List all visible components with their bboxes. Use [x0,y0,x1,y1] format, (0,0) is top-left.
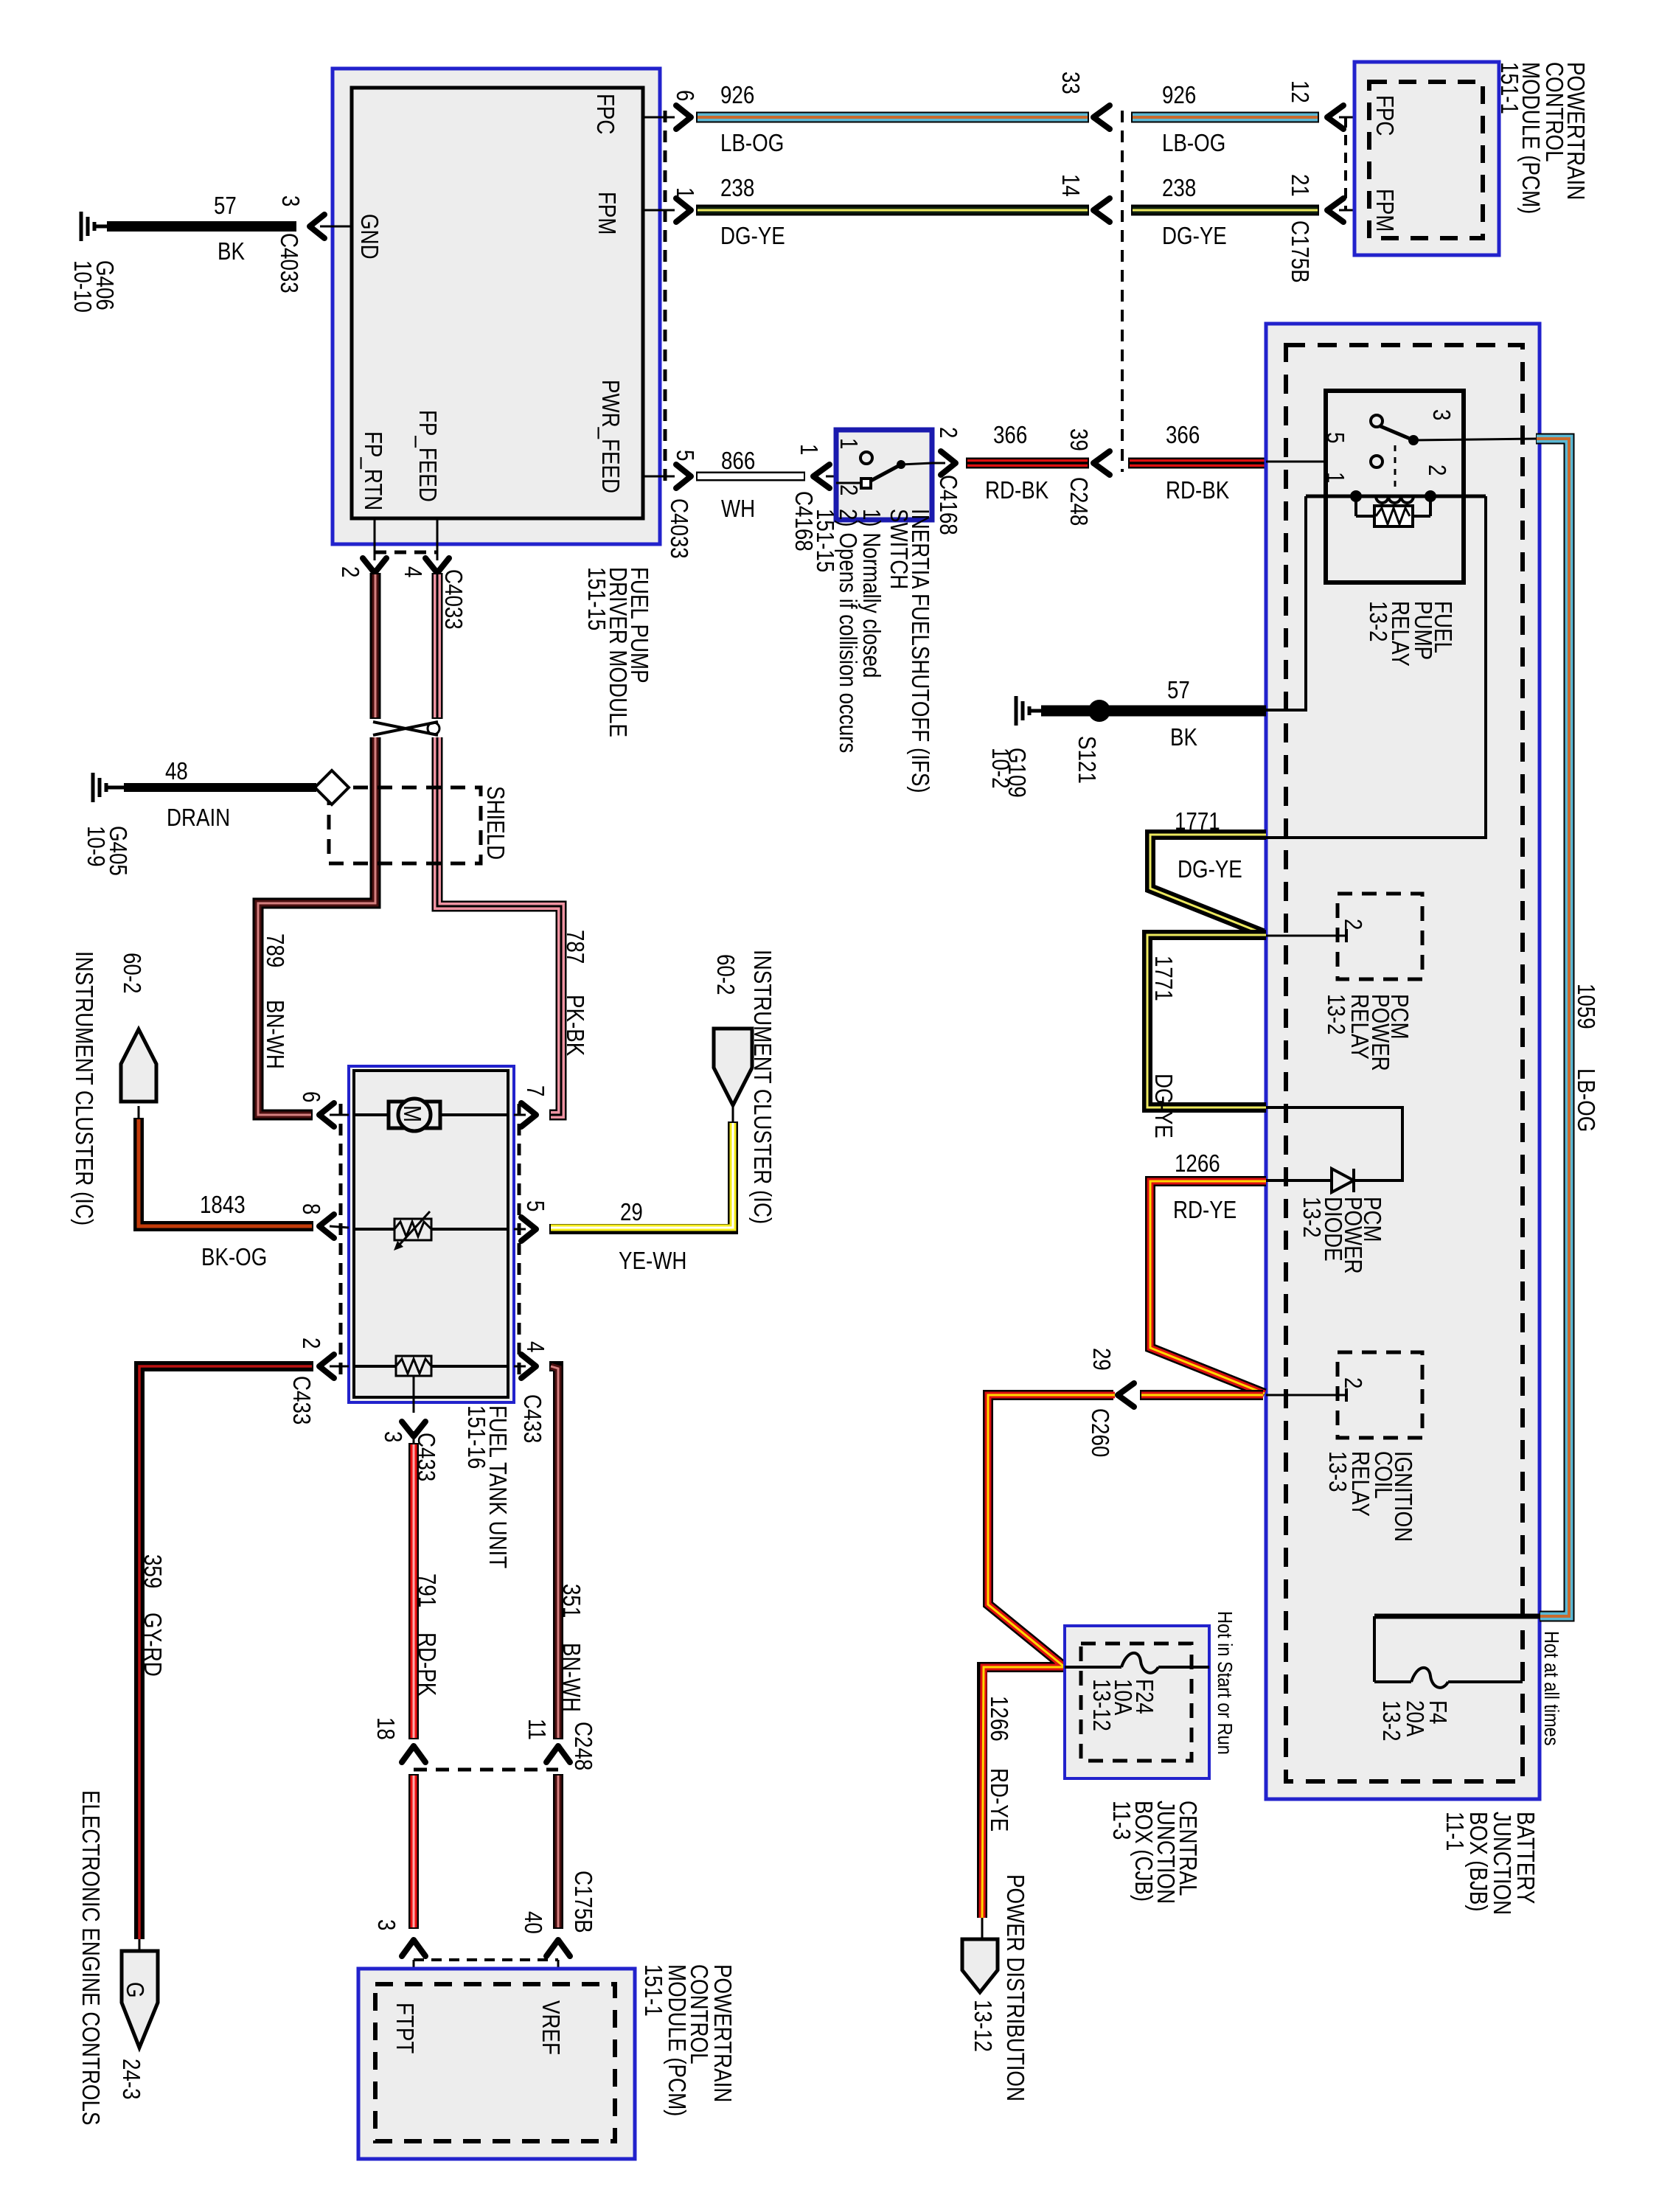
connector dashed line at PCM C175B [1344,117,1347,210]
battery junction box (outer blue) [1266,324,1540,1799]
svg-text:13-3: 13-3 [1324,1451,1352,1492]
fuel pump driver module inner box [352,88,643,518]
svg-text:RD-YE: RD-YE [1173,1196,1237,1223]
CJB inner dashed box [1081,1644,1192,1761]
svg-text:60-2: 60-2 [119,953,146,994]
connector arrow C248 pin 39 [1093,451,1110,475]
inertia fuel shutoff switch box [836,430,932,520]
shield dashed box [329,787,481,863]
svg-text:C433: C433 [288,1376,316,1425]
relay contact pin 5 [1371,456,1382,467]
connector arrow pin 2 [319,1354,334,1378]
svg-text:2: 2 [337,566,364,577]
wire 926 LB-OG (left segment) [696,112,1089,123]
pin tick FPM [1369,209,1380,212]
relay contact pin 3 side [1371,415,1382,427]
F4 fuse feed line [1374,1614,1540,1619]
svg-text:1771: 1771 [1175,807,1220,835]
svg-text:3: 3 [277,195,305,206]
fuel tank unit box (outer blue) [349,1066,514,1402]
svg-text:11-3: 11-3 [1108,1801,1135,1840]
balance resistor wire [354,1365,508,1368]
PCM power relay pin 2 line [1266,935,1346,937]
powertrain control module box (top) [1354,62,1499,255]
FPDM bottom pin stubs 2 and 4 [374,518,376,560]
connector arrow C4168 pin 2 [941,451,956,475]
ground G109 [1016,696,1041,726]
svg-text:INSTRUMENT CLUSTER (IC): INSTRUMENT CLUSTER (IC) [71,951,98,1225]
PCM bottom inner dashed box [375,1984,615,2141]
svg-text:787: 787 [562,930,589,964]
connector arrow pin 3 bottom [402,1422,425,1436]
connector arrow pin 1 [676,198,691,222]
svg-text:SHIELD: SHIELD [482,786,509,860]
connector dashed line C433 left [339,1104,343,1377]
fixed resistor [396,1356,431,1376]
svg-text:M: M [399,1105,426,1122]
relay blade [1380,426,1413,440]
connector arrow at PCM FPM pin 21 [1327,198,1343,222]
svg-text:VREF: VREF [538,2000,565,2055]
FTPT pin line [413,1960,415,1991]
svg-text:13-2: 13-2 [1298,1197,1326,1238]
svg-text:C433: C433 [519,1394,546,1443]
VREF pin line [557,1960,560,1991]
svg-text:14: 14 [1057,174,1085,197]
fuse F4 symbol [1411,1668,1448,1688]
ground G406 [81,212,107,241]
svg-text:10-2: 10-2 [987,748,1015,789]
ignition coil relay pin 2 line [1266,1394,1346,1397]
svg-text:48: 48 [165,757,188,785]
svg-text:DG-YE: DG-YE [1178,855,1242,883]
svg-text:2: 2 [835,484,863,495]
connector arrow C175B pin 3 [402,1940,425,1956]
svg-text:POWER DISTRIBUTION: POWER DISTRIBUTION [1002,1874,1029,2101]
connector dashed line C4033 bottom [375,551,437,554]
svg-text:13-2: 13-2 [1365,601,1392,642]
svg-text:C260: C260 [1087,1408,1114,1457]
svg-text:4: 4 [522,1341,549,1352]
central junction box [1065,1626,1209,1778]
svg-text:351: 351 [558,1584,585,1618]
svg-text:11-1: 11-1 [1441,1812,1469,1851]
svg-text:5: 5 [1322,432,1349,443]
connector arrow pin 2 [363,558,386,573]
splice S121 [1088,700,1110,722]
svg-text:926: 926 [1162,81,1196,108]
svg-text:BK: BK [218,237,245,265]
fuel pump driver module box (outer blue) [333,69,660,544]
svg-text:11: 11 [524,1719,551,1740]
wire 366 RD-BK (right segment) [1128,458,1266,469]
IFS internal contact pin 2 [836,482,861,484]
svg-text:151-15: 151-15 [812,509,839,572]
wire 238 DG-YE (right segment) [1131,205,1319,216]
wire 1843 BK-OG [138,1106,140,1118]
connector arrow pin 6 [319,1103,334,1127]
connector arrow pin 7 [521,1103,536,1127]
instrument cluster arrow (right) [714,1029,752,1105]
wire 351 BN-WH from tank pin 4 [549,1366,558,1739]
svg-text:60-2: 60-2 [712,954,740,995]
svg-text:DG-YE: DG-YE [1162,222,1227,249]
svg-text:3: 3 [373,1919,400,1930]
wire 791 RD-PK lower segment [408,1774,419,1929]
svg-text:DG-YE: DG-YE [1150,1074,1178,1138]
svg-text:5: 5 [522,1200,549,1211]
svg-text:13-12: 13-12 [970,2000,997,2052]
svg-text:G: G [122,1982,149,1998]
svg-text:2: 2 [935,427,962,438]
svg-text:RD-BK: RD-BK [985,476,1048,504]
connector arrow C175B pin 40 [546,1940,570,1956]
connector arrow C175B pin 14 [1093,198,1110,222]
svg-text:13-12: 13-12 [1088,1679,1116,1731]
svg-text:C175B: C175B [570,1871,597,1933]
battery junction box inner dashed border [1286,345,1523,1781]
svg-text:359: 359 [139,1554,167,1588]
powertrain control module box (bottom) [358,1969,635,2159]
wire 366 RD-BK (left segment) [966,458,1089,469]
svg-text:33: 33 [1057,72,1085,94]
svg-text:SWITCH: SWITCH [886,509,913,589]
svg-text:13-2: 13-2 [1323,994,1350,1035]
svg-text:866: 866 [721,447,755,474]
svg-text:FP_RTN: FP_RTN [360,431,387,510]
svg-text:DG-YE: DG-YE [720,222,785,249]
connector arrow pin 4 [425,558,449,573]
electronic engine controls arrow G [122,1951,158,2048]
svg-text:INSTRUMENT CLUSTER (IC): INSTRUMENT CLUSTER (IC) [749,950,776,1224]
connector arrow pin 8 [319,1214,334,1238]
svg-text:238: 238 [1162,174,1196,201]
wire 57 BK to G109 [1041,706,1266,717]
fuel pump relay box [1326,391,1464,582]
svg-text:40: 40 [520,1911,547,1934]
relay actuation dashed line [1394,445,1397,493]
svg-text:7: 7 [522,1085,549,1096]
wire 238 DG-YE (left segment) [696,205,1089,216]
power distribution arrow [981,1918,984,1941]
relay pin2 wire down [1266,496,1486,838]
svg-text:39: 39 [1065,428,1093,451]
wire 789 BN-WH from FPDM pin 2 [370,573,381,719]
wire 866 WH [696,472,805,481]
relay coil bridge [1306,495,1486,498]
svg-text:FTPT: FTPT [392,2003,419,2053]
svg-text:10-9: 10-9 [83,826,110,867]
IFS switch blade [871,465,901,481]
svg-text:789: 789 [262,933,289,967]
connector arrow C248 pin 18 [402,1746,425,1762]
svg-text:FPC: FPC [1371,95,1399,136]
sender wire [354,1228,508,1231]
svg-text:238: 238 [720,174,754,201]
svg-text:57: 57 [214,192,237,219]
wire 1266 RD-YE after C260 [982,1395,1115,1918]
connector arrow pin 5 [521,1217,536,1241]
svg-text:5: 5 [672,450,699,461]
svg-text:LB-OG: LB-OG [1573,1068,1600,1132]
svg-text:3: 3 [380,1431,407,1442]
svg-text:1: 1 [835,438,863,449]
svg-text:C248: C248 [1065,477,1093,526]
svg-text:GY-RD: GY-RD [139,1613,167,1677]
PCM power relay dashed box [1338,894,1422,979]
connector dashed line C175B / C248 plane [1121,111,1124,472]
PCM inner dashed box [1369,82,1483,238]
drain diamond [315,771,349,804]
svg-text:1843: 1843 [200,1191,246,1218]
fuel pump motor wire [354,1113,508,1116]
svg-text:Hot at all times: Hot at all times [1540,1631,1563,1746]
wire 57 BK to GND [107,221,296,232]
ignition coil relay dashed box [1338,1352,1422,1438]
svg-text:RD-BK: RD-BK [1166,476,1229,504]
svg-text:FPC: FPC [592,94,619,134]
svg-text:RD-YE: RD-YE [986,1768,1013,1832]
svg-text:1266: 1266 [986,1696,1013,1742]
svg-text:BN-WH: BN-WH [558,1643,585,1712]
fuel tank unit inner box [354,1071,508,1397]
svg-text:10-10: 10-10 [69,260,97,313]
svg-text:FPM: FPM [594,192,621,235]
ground G405 [93,773,124,802]
svg-text:FPM: FPM [1371,189,1399,232]
fuel pump motor M [389,1102,440,1128]
connector dashed line C433 right [518,1104,521,1377]
svg-text:BK-OG: BK-OG [201,1243,267,1270]
wire 359 GY-RD [139,1366,313,1939]
PWR_FEED pin line [643,476,675,478]
FPC pin line [643,116,675,119]
svg-text:GND: GND [356,214,383,260]
svg-text:2: 2 [298,1338,325,1349]
wire 1266 RD-YE run to CJB [1140,1390,1263,1400]
svg-text:3: 3 [1428,409,1455,420]
connector dashed line C4033 (FPDM side) [664,111,667,483]
FPM pin line [643,209,675,212]
svg-text:24-3: 24-3 [118,2059,145,2100]
svg-text:1: 1 [796,444,823,455]
svg-text:PK-BK: PK-BK [562,995,589,1056]
svg-text:8: 8 [298,1203,325,1214]
svg-text:29: 29 [620,1198,643,1225]
svg-text:21: 21 [1287,174,1314,197]
svg-text:C175B: C175B [1287,220,1314,283]
svg-text:C4033: C4033 [276,233,303,293]
connector arrow C4033 pin 3 [310,215,324,238]
wire 1059 LB-OG feed [1413,439,1536,440]
svg-text:S121: S121 [1074,736,1101,784]
svg-text:WH: WH [721,495,755,522]
svg-text:C4033: C4033 [440,569,467,630]
connector arrow at PCM FPC pin 12 [1327,105,1343,129]
svg-text:LB-OG: LB-OG [1162,129,1225,156]
svg-text:C4168: C4168 [935,475,962,535]
svg-text:2: 2 [1340,1377,1367,1388]
wire 1771 DG-YE lower run [1147,935,1266,1107]
IFS blade output line [901,463,932,465]
svg-text:926: 926 [720,81,754,108]
wire 366 line inside BJB to relay pin 5 [1266,461,1371,463]
svg-text:151-15: 151-15 [583,567,611,630]
connector arrow C248 pin 11 [546,1746,570,1762]
pin tick FPC [1369,116,1380,119]
svg-text:PWR_FEED: PWR_FEED [597,380,625,493]
svg-text:2: 2 [1340,919,1367,930]
IFS internal contact pin 1 [860,452,872,464]
svg-text:12: 12 [1287,80,1314,103]
relay pin1 wire to S121 ground [1266,496,1306,710]
svg-text:FP_FEED: FP_FEED [414,410,442,502]
relay coil bumps [1376,496,1413,503]
svg-text:4: 4 [400,566,427,577]
PCM power diode symbol [1332,1169,1354,1192]
svg-text:57: 57 [1167,676,1190,703]
svg-text:Hot in Start or Run: Hot in Start or Run [1214,1611,1237,1755]
wire 926 LB-OG (right segment) [1131,112,1319,123]
svg-text:6: 6 [672,90,699,101]
svg-text:1: 1 [672,187,699,198]
svg-text:151-1: 151-1 [640,1964,667,2017]
svg-text:366: 366 [1166,421,1200,448]
svg-text:1: 1 [1322,472,1349,483]
wire 787 PK-BK from FPDM pin 4 [432,573,443,719]
fuse F24 line [1065,1666,1121,1669]
svg-text:151-1: 151-1 [1496,62,1523,114]
svg-text:1266: 1266 [1175,1150,1220,1177]
svg-text:YE-WH: YE-WH [619,1247,686,1274]
svg-text:18: 18 [372,1717,400,1740]
connector dashed line C248 bottom [414,1768,558,1772]
connector arrow pin 4 [521,1354,536,1378]
twisted pair symbol [373,722,438,735]
svg-text:DRAIN: DRAIN [167,804,230,831]
instrument cluster arrow (left) [121,1029,156,1102]
wire 48 DRAIN [124,783,316,792]
svg-text:151-16: 151-16 [463,1405,490,1469]
connector dashed line C175B bottom [414,1958,558,1961]
svg-text:29: 29 [1088,1348,1116,1371]
pin 3 tap line [413,1376,415,1413]
svg-text:BN-WH: BN-WH [262,1000,289,1069]
svg-text:2: 2 [1424,465,1451,476]
wire 29 YE-WH [732,1105,734,1121]
svg-text:BK: BK [1170,723,1197,751]
wire 791 RD-PK upper segment [408,1443,419,1739]
wire 351 BN-WH lower segment [553,1774,563,1929]
svg-text:366: 366 [993,421,1027,448]
svg-text:C4033: C4033 [666,498,693,559]
svg-text:1059: 1059 [1573,984,1600,1029]
wire 1266 RD-YE upper zigzag [1150,1181,1266,1394]
connector arrow C4168 pin 1 [813,465,829,488]
fuel level sender variable resistor [394,1219,431,1240]
svg-text:LB-OG: LB-OG [720,129,784,156]
connector arrow pin 5 [676,465,691,488]
connector arrow C175B pin 33 [1093,105,1110,129]
svg-text:C248: C248 [570,1722,597,1770]
svg-text:6: 6 [298,1091,325,1102]
relay coil resistor box [1354,496,1357,516]
svg-text:1771: 1771 [1150,956,1178,1001]
connector arrow pin 6 [676,105,691,129]
svg-text:13-2: 13-2 [1378,1700,1405,1742]
fuse F24 symbol [1121,1653,1158,1673]
connector arrow C260 pin 29 [1118,1383,1134,1407]
wire 1771 DG-YE upper zigzag [1150,835,1266,933]
svg-text:791: 791 [414,1573,441,1607]
svg-text:ELECTRONIC ENGINE CONTROLS: ELECTRONIC ENGINE CONTROLS [77,1790,105,2125]
PCM power diode circuit lines [1266,1107,1402,1180]
svg-text:RD-PK: RD-PK [414,1632,441,1696]
